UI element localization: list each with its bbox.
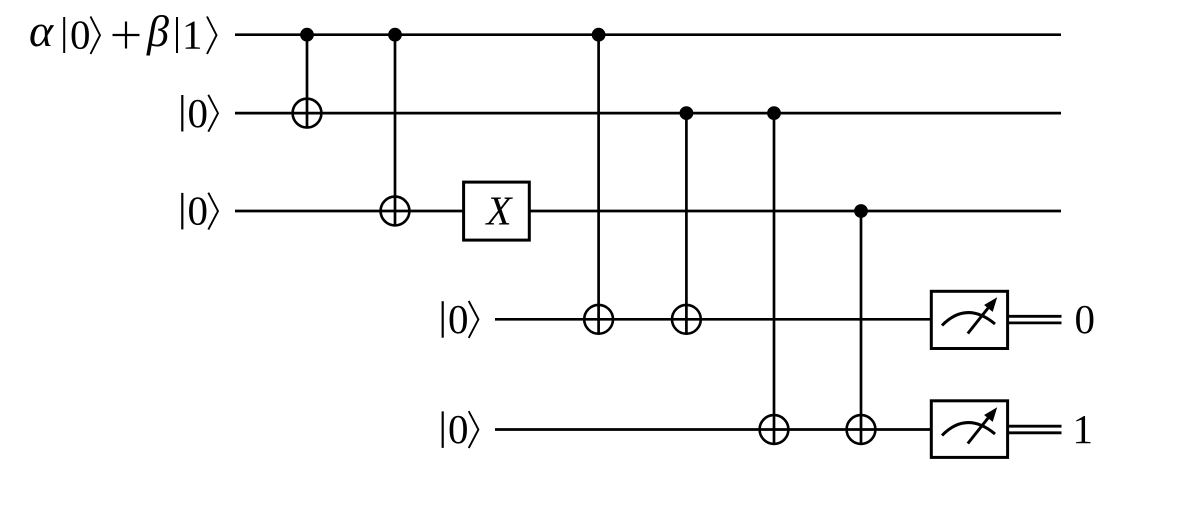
CNOT1 control dot on q0: [300, 28, 314, 42]
CNOT6 target on q4: [847, 415, 876, 444]
measurement M1 double classical wire: [1008, 316, 1062, 323]
input label q0 : plus sign: [113, 22, 140, 49]
CNOT5 control dot on q1: [767, 106, 781, 120]
input label ket0 on q3 : bracket: [469, 301, 479, 338]
qubit wire q4: [495, 428, 932, 431]
qubit wire q3: [495, 318, 932, 321]
svg-text:X: X: [485, 188, 514, 234]
svg-text:1: 1: [1073, 406, 1094, 452]
svg-text:0: 0: [1075, 296, 1096, 342]
CNOT2 vertical wire q0-q2: [394, 35, 397, 227]
measurement M2 double classical wire: [1008, 426, 1062, 433]
CNOT2 control dot on q0: [388, 28, 402, 42]
CNOT1 target on q1: [293, 99, 322, 128]
input label ket0 on q2 : bar: [181, 193, 183, 230]
measurement box M1 on q3: [931, 291, 1007, 348]
svg-text:0: 0: [70, 11, 91, 57]
qubit wire q2: [235, 210, 1061, 213]
qubit wire q0: [235, 33, 1061, 36]
input label q0 : angle bracket 2: [207, 17, 217, 55]
input label ket0 on q1 : bar: [181, 95, 183, 132]
CNOT4 target on q3: [672, 305, 701, 334]
input label ket0 on q1 : bracket: [208, 95, 218, 132]
input label ket0 on q4 : bar: [442, 411, 444, 448]
svg-text:β: β: [146, 7, 169, 56]
svg-text:α: α: [29, 5, 54, 56]
input label q0 : ket bar 2: [176, 17, 178, 53]
CNOT1 vertical wire q0-q1: [306, 35, 309, 129]
svg-text:0: 0: [188, 188, 209, 234]
gate X box on q2: [464, 182, 530, 240]
input label ket0 on q3 : bar: [442, 301, 444, 338]
input label q0 : ket bar: [63, 17, 65, 53]
input label ket0 on q4 : bracket: [469, 411, 479, 448]
CNOT2 target on q2: [381, 197, 410, 226]
CNOT4 vertical wire q1-q3: [685, 113, 688, 335]
CNOT3 control dot on q0: [592, 28, 606, 42]
CNOT6 vertical wire q2-q4: [860, 211, 863, 445]
CNOT6 control dot on q2: [854, 204, 868, 218]
input label ket0 on q2 : bracket: [208, 193, 218, 230]
svg-text:0: 0: [448, 296, 469, 342]
svg-text:0: 0: [188, 90, 209, 136]
CNOT5 vertical wire q1-q4: [773, 113, 776, 445]
svg-text:0: 0: [448, 406, 469, 452]
input label q0 : angle bracket: [91, 17, 101, 55]
CNOT4 control dot on q1: [680, 106, 694, 120]
measurement box M2 on q4: [931, 401, 1007, 458]
qubit wire q1: [235, 112, 1061, 115]
CNOT3 vertical wire q0-q3: [597, 35, 600, 335]
CNOT3 target on q3: [584, 305, 613, 334]
svg-text:1: 1: [182, 11, 203, 57]
CNOT5 target on q4: [760, 415, 789, 444]
